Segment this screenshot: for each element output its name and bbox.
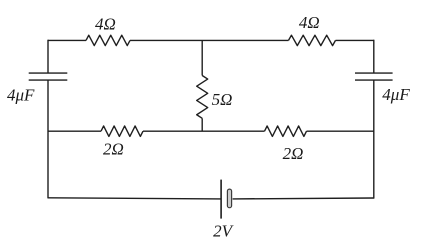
svg-text:4Ω: 4Ω (299, 13, 320, 32)
svg-text:4μF: 4μF (382, 85, 410, 104)
svg-text:4Ω: 4Ω (95, 15, 116, 34)
svg-text:5Ω: 5Ω (212, 90, 233, 109)
svg-text:2Ω: 2Ω (103, 140, 124, 159)
svg-text:2Ω: 2Ω (283, 144, 304, 163)
svg-text:4μF: 4μF (7, 85, 35, 104)
svg-text:2V: 2V (213, 222, 235, 241)
